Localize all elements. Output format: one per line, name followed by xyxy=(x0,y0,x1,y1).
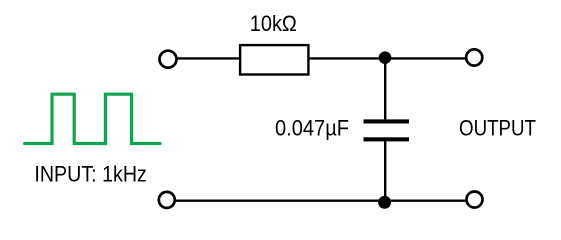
wire (capacitor down to bottom junction) xyxy=(384,141,386,200)
svg-text:0.047µF: 0.047µF xyxy=(275,116,349,141)
node (top junction) xyxy=(379,51,392,64)
input square-wave signal xyxy=(25,94,160,143)
wire (bottom rail) xyxy=(176,199,465,201)
capacitor C1 plates xyxy=(364,119,410,141)
svg-text:OUTPUT: OUTPUT xyxy=(459,116,536,141)
node (bottom junction) xyxy=(378,196,391,209)
terminal J4 (bottom-right) xyxy=(467,192,483,208)
wire (resistor to top-right terminal) xyxy=(309,57,465,59)
svg-text:INPUT: 1kHz: INPUT: 1kHz xyxy=(34,162,146,187)
terminal J2 (top-right output) xyxy=(466,49,482,65)
wire (junction down to capacitor) xyxy=(384,58,386,120)
terminal J1 (top-left input) xyxy=(160,51,177,68)
wire (top-left terminal to resistor) xyxy=(178,57,241,59)
resistor R1 body xyxy=(240,45,308,74)
svg-text:10kΩ: 10kΩ xyxy=(250,11,297,36)
terminal J3 (bottom-left) xyxy=(159,192,175,208)
